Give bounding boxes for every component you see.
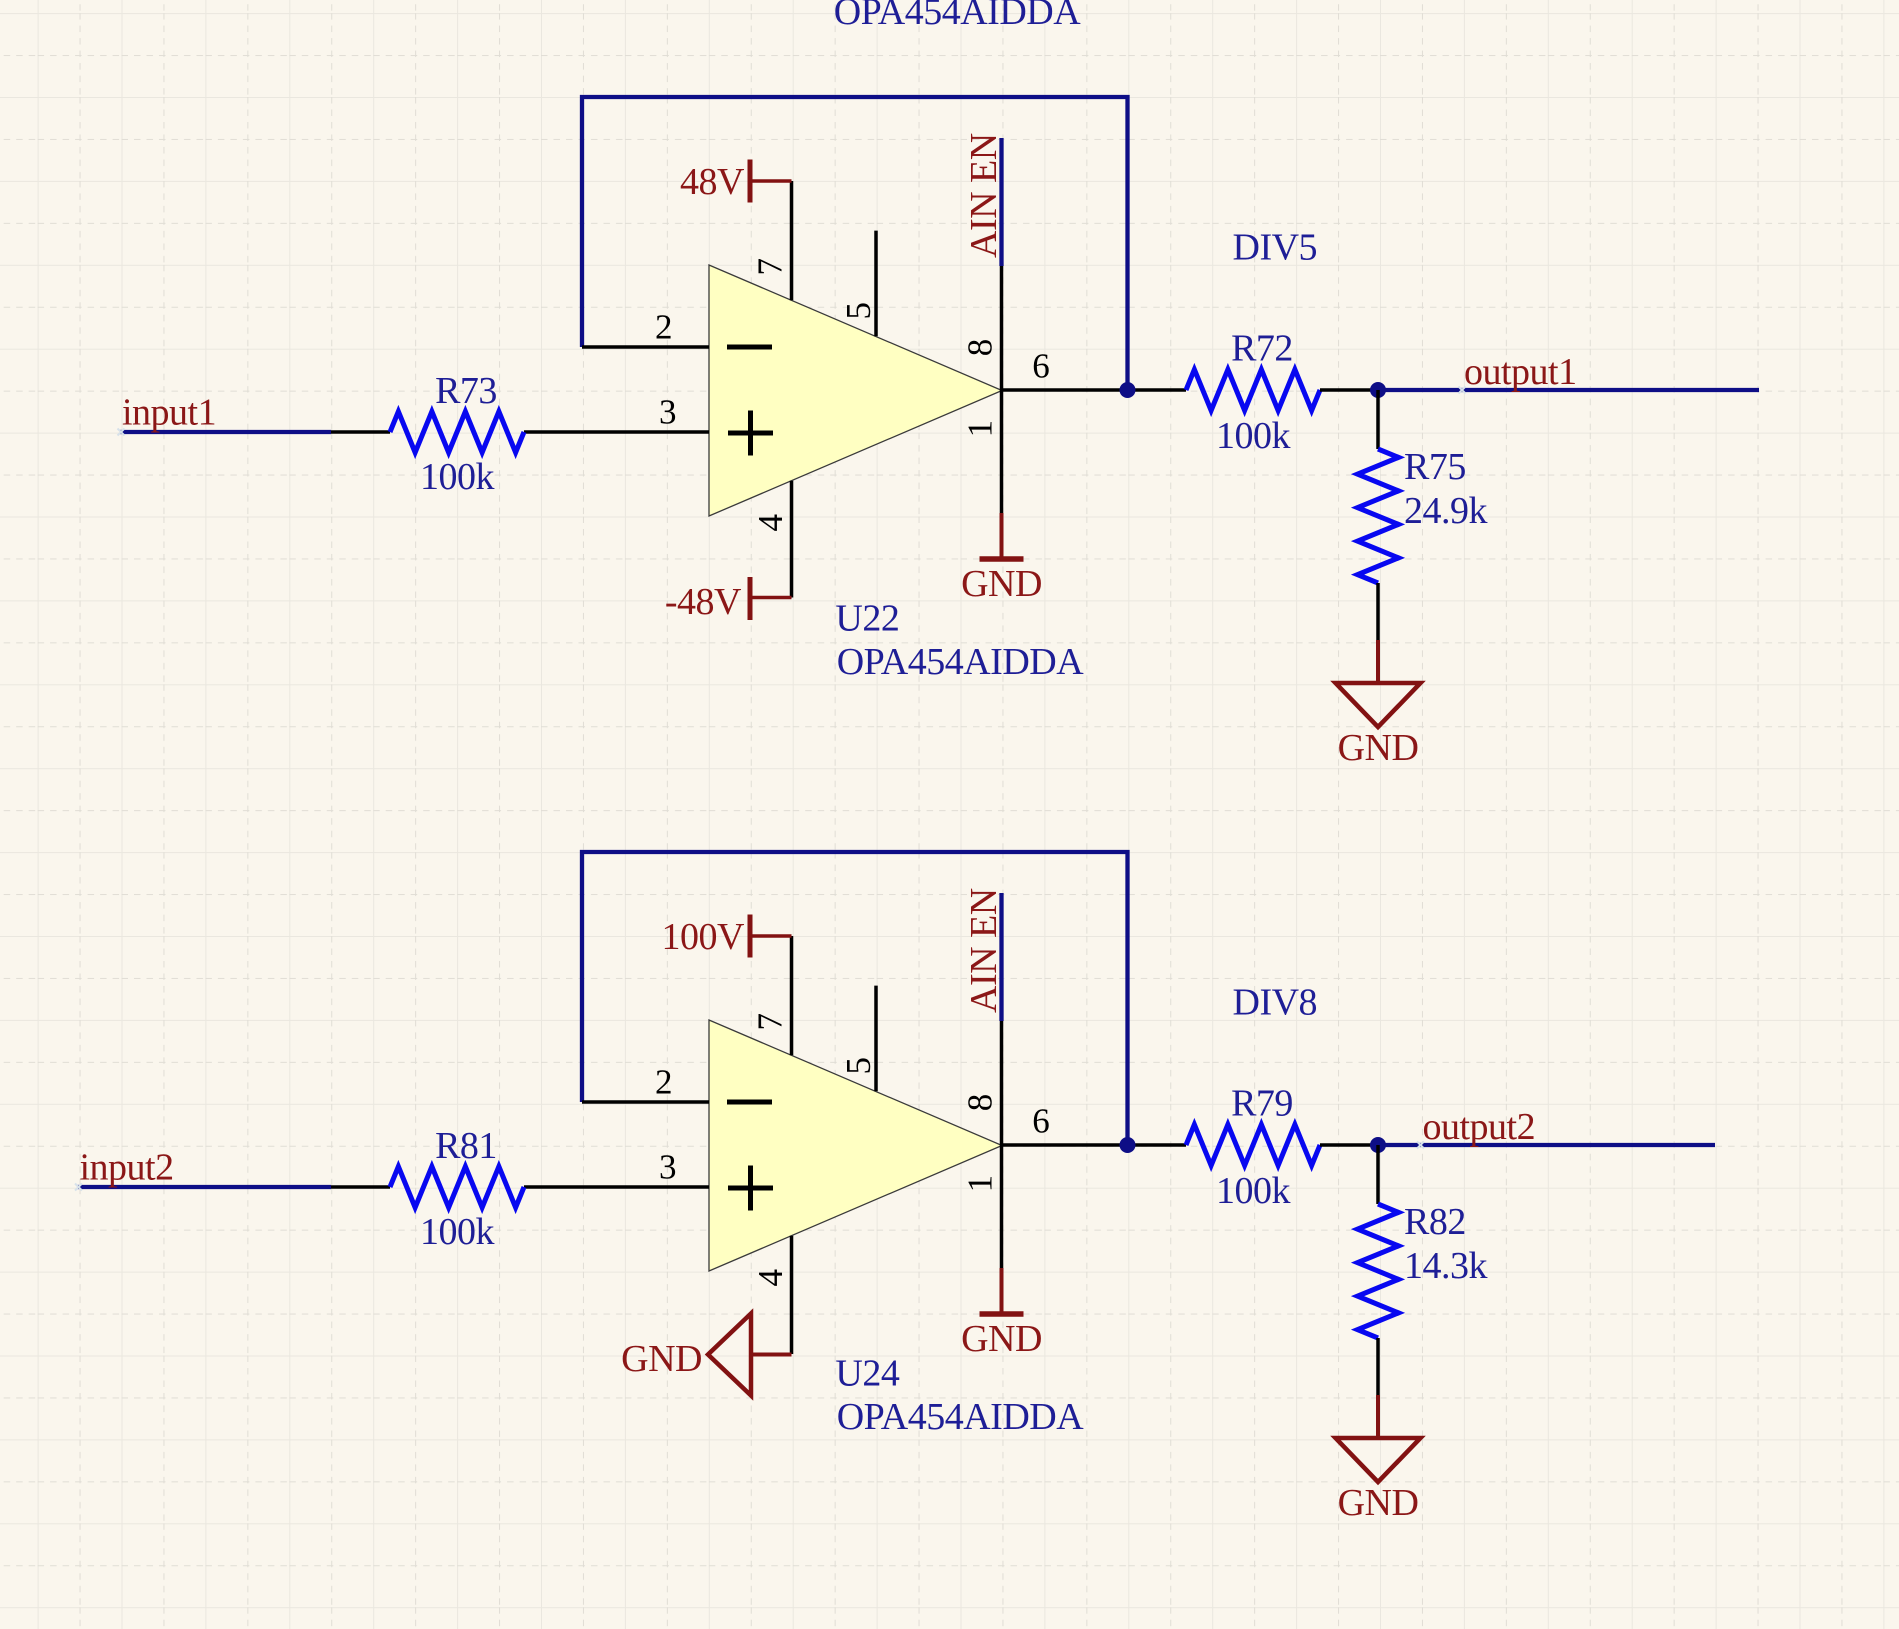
power port 100V bar <box>748 915 753 958</box>
svg-text:4: 4 <box>751 1270 790 1287</box>
pin 3 line <box>524 1185 709 1189</box>
svg-text:7: 7 <box>750 1014 789 1031</box>
op-amp U24 body <box>709 1020 1002 1271</box>
resistor R81 zigzag <box>390 1167 524 1208</box>
svg-text:U24: U24 <box>835 1352 899 1394</box>
svg-text:100k: 100k <box>420 456 495 498</box>
resistor R72 right pin <box>1320 388 1378 392</box>
wire feedback from output to pin 2 <box>582 852 1128 1145</box>
svg-text:DIV5: DIV5 <box>1233 227 1318 269</box>
wire net AIN_EN stub <box>999 893 1003 1021</box>
svg-text:AIN EN: AIN EN <box>963 133 1005 258</box>
svg-text:OPA454AIDDA: OPA454AIDDA <box>834 0 1082 33</box>
ground symbol below divider <box>1376 1395 1380 1438</box>
svg-text:100k: 100k <box>1216 415 1291 457</box>
junction at divider node <box>1370 1137 1386 1153</box>
svg-text:OPA454AIDDA: OPA454AIDDA <box>837 1396 1085 1438</box>
svg-text:input1: input1 <box>122 391 216 433</box>
wire net output2 <box>1378 1143 1715 1147</box>
svg-text:GND: GND <box>1338 1482 1419 1524</box>
ground power port arrow at pin 4 <box>708 1314 751 1396</box>
pin 6 line <box>1002 1143 1186 1147</box>
net label anchor <box>118 429 125 436</box>
resistor R79 zigzag <box>1186 1125 1320 1166</box>
resistor R82 bottom pin <box>1376 1338 1380 1395</box>
pin 7 line <box>790 181 794 300</box>
svg-text:7: 7 <box>750 259 789 276</box>
svg-text:GND: GND <box>961 1318 1042 1360</box>
svg-text:8: 8 <box>961 1094 1000 1111</box>
pin 3 line <box>524 430 709 434</box>
resistor R73 zigzag <box>390 412 524 453</box>
pin 8 and pin 1 line <box>1000 266 1004 513</box>
svg-text:2: 2 <box>655 1063 672 1102</box>
svg-text:3: 3 <box>659 393 676 432</box>
resistor R75 top pin <box>1376 390 1380 449</box>
resistor R81 left pin <box>331 1185 390 1189</box>
net label anchor <box>1459 387 1466 394</box>
svg-text:GND: GND <box>961 563 1042 605</box>
resistor R82 zigzag <box>1358 1204 1399 1338</box>
pin 6 line <box>1002 388 1186 392</box>
svg-text:AIN EN: AIN EN <box>963 888 1005 1013</box>
resistor R75 zigzag <box>1358 449 1399 583</box>
svg-text:4: 4 <box>751 515 790 532</box>
svg-text:100k: 100k <box>420 1211 495 1253</box>
svg-text:U22: U22 <box>835 597 899 639</box>
resistor R82 top pin <box>1376 1145 1380 1204</box>
wire feedback from output to pin 2 <box>582 97 1128 390</box>
svg-text:1: 1 <box>961 1175 1000 1192</box>
svg-text:input2: input2 <box>80 1146 174 1188</box>
svg-text:8: 8 <box>961 339 1000 356</box>
svg-text:24.9k: 24.9k <box>1404 490 1488 532</box>
resistor R73 left pin <box>331 430 390 434</box>
wire net input1 <box>120 430 331 434</box>
pin 7 line <box>790 936 794 1055</box>
svg-text:R73: R73 <box>435 370 497 412</box>
resistor R79 right pin <box>1320 1143 1378 1147</box>
svg-text:R82: R82 <box>1404 1201 1466 1243</box>
svg-text:R81: R81 <box>435 1125 497 1167</box>
svg-text:6: 6 <box>1032 347 1049 386</box>
op-amp U22 body <box>709 265 1002 516</box>
svg-text:100V: 100V <box>662 916 746 958</box>
op-amp U24 non-inverting input marker <box>728 1166 773 1211</box>
svg-text:GND: GND <box>1338 727 1419 769</box>
svg-text:100k: 100k <box>1216 1170 1291 1212</box>
pin 2 line <box>582 1100 709 1104</box>
svg-text:1: 1 <box>961 420 1000 437</box>
svg-text:14.3k: 14.3k <box>1404 1245 1488 1287</box>
pin 5 line <box>874 231 878 337</box>
op-amp U24 inverting input marker <box>727 1100 772 1105</box>
svg-text:6: 6 <box>1032 1102 1049 1141</box>
svg-text:DIV8: DIV8 <box>1233 982 1318 1024</box>
op-amp U22 non-inverting input marker <box>728 411 773 456</box>
svg-text:OPA454AIDDA: OPA454AIDDA <box>837 641 1085 683</box>
op-amp U22 inverting input marker <box>727 345 772 350</box>
ground symbol at pin 1 <box>1000 1268 1004 1313</box>
pin 5 line <box>874 986 878 1092</box>
svg-text:48V: 48V <box>680 161 745 203</box>
junction at feedback node <box>1120 382 1136 398</box>
svg-text:3: 3 <box>659 1148 676 1187</box>
svg-text:R72: R72 <box>1231 327 1293 369</box>
svg-text:output2: output2 <box>1423 1106 1536 1148</box>
wire net AIN_EN stub <box>999 138 1003 266</box>
power port 48V bar <box>748 160 753 203</box>
svg-text:output1: output1 <box>1464 351 1577 393</box>
wire net output1 <box>1378 388 1759 392</box>
svg-text:R79: R79 <box>1231 1082 1293 1124</box>
svg-text:GND: GND <box>621 1338 702 1380</box>
svg-text:5: 5 <box>839 1058 878 1075</box>
svg-text:R75: R75 <box>1404 446 1466 488</box>
junction at divider node <box>1370 382 1386 398</box>
svg-text:5: 5 <box>839 303 878 320</box>
pin 2 line <box>582 345 709 349</box>
ground symbol at pin 1 <box>1000 513 1004 558</box>
pin 8 and pin 1 line <box>1000 1021 1004 1268</box>
pin 4 line <box>790 1236 794 1354</box>
resistor R75 bottom pin <box>1376 583 1380 640</box>
power port -48V bar <box>748 577 753 620</box>
wire net input2 <box>78 1185 332 1189</box>
net label anchor <box>1417 1142 1424 1149</box>
svg-text:-48V: -48V <box>665 581 742 623</box>
svg-text:2: 2 <box>655 308 672 347</box>
ground symbol below divider <box>1376 640 1380 683</box>
net label anchor <box>75 1184 82 1191</box>
pin 4 line <box>790 481 794 598</box>
resistor R72 zigzag <box>1186 370 1320 411</box>
junction at feedback node <box>1120 1137 1136 1153</box>
